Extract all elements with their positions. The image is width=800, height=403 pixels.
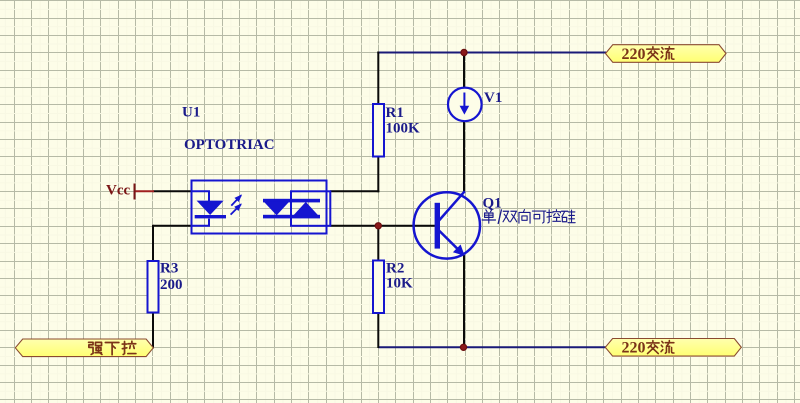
svg-text:220: 220 [622,340,646,357]
svg-text:Q1: Q1 [483,196,502,212]
svg-text:U1: U1 [182,105,200,121]
svg-text:100K: 100K [386,120,421,136]
svg-text:220: 220 [622,46,646,63]
svg-text:R3: R3 [160,261,178,277]
svg-text:R1: R1 [386,105,404,121]
svg-text:R2: R2 [386,260,404,276]
svg-text:OPTOTRIAC: OPTOTRIAC [184,137,275,153]
svg-text:200: 200 [160,277,183,293]
svg-text:Vcc: Vcc [106,183,130,199]
svg-text:10K: 10K [386,276,413,292]
svg-text:V1: V1 [484,90,502,106]
